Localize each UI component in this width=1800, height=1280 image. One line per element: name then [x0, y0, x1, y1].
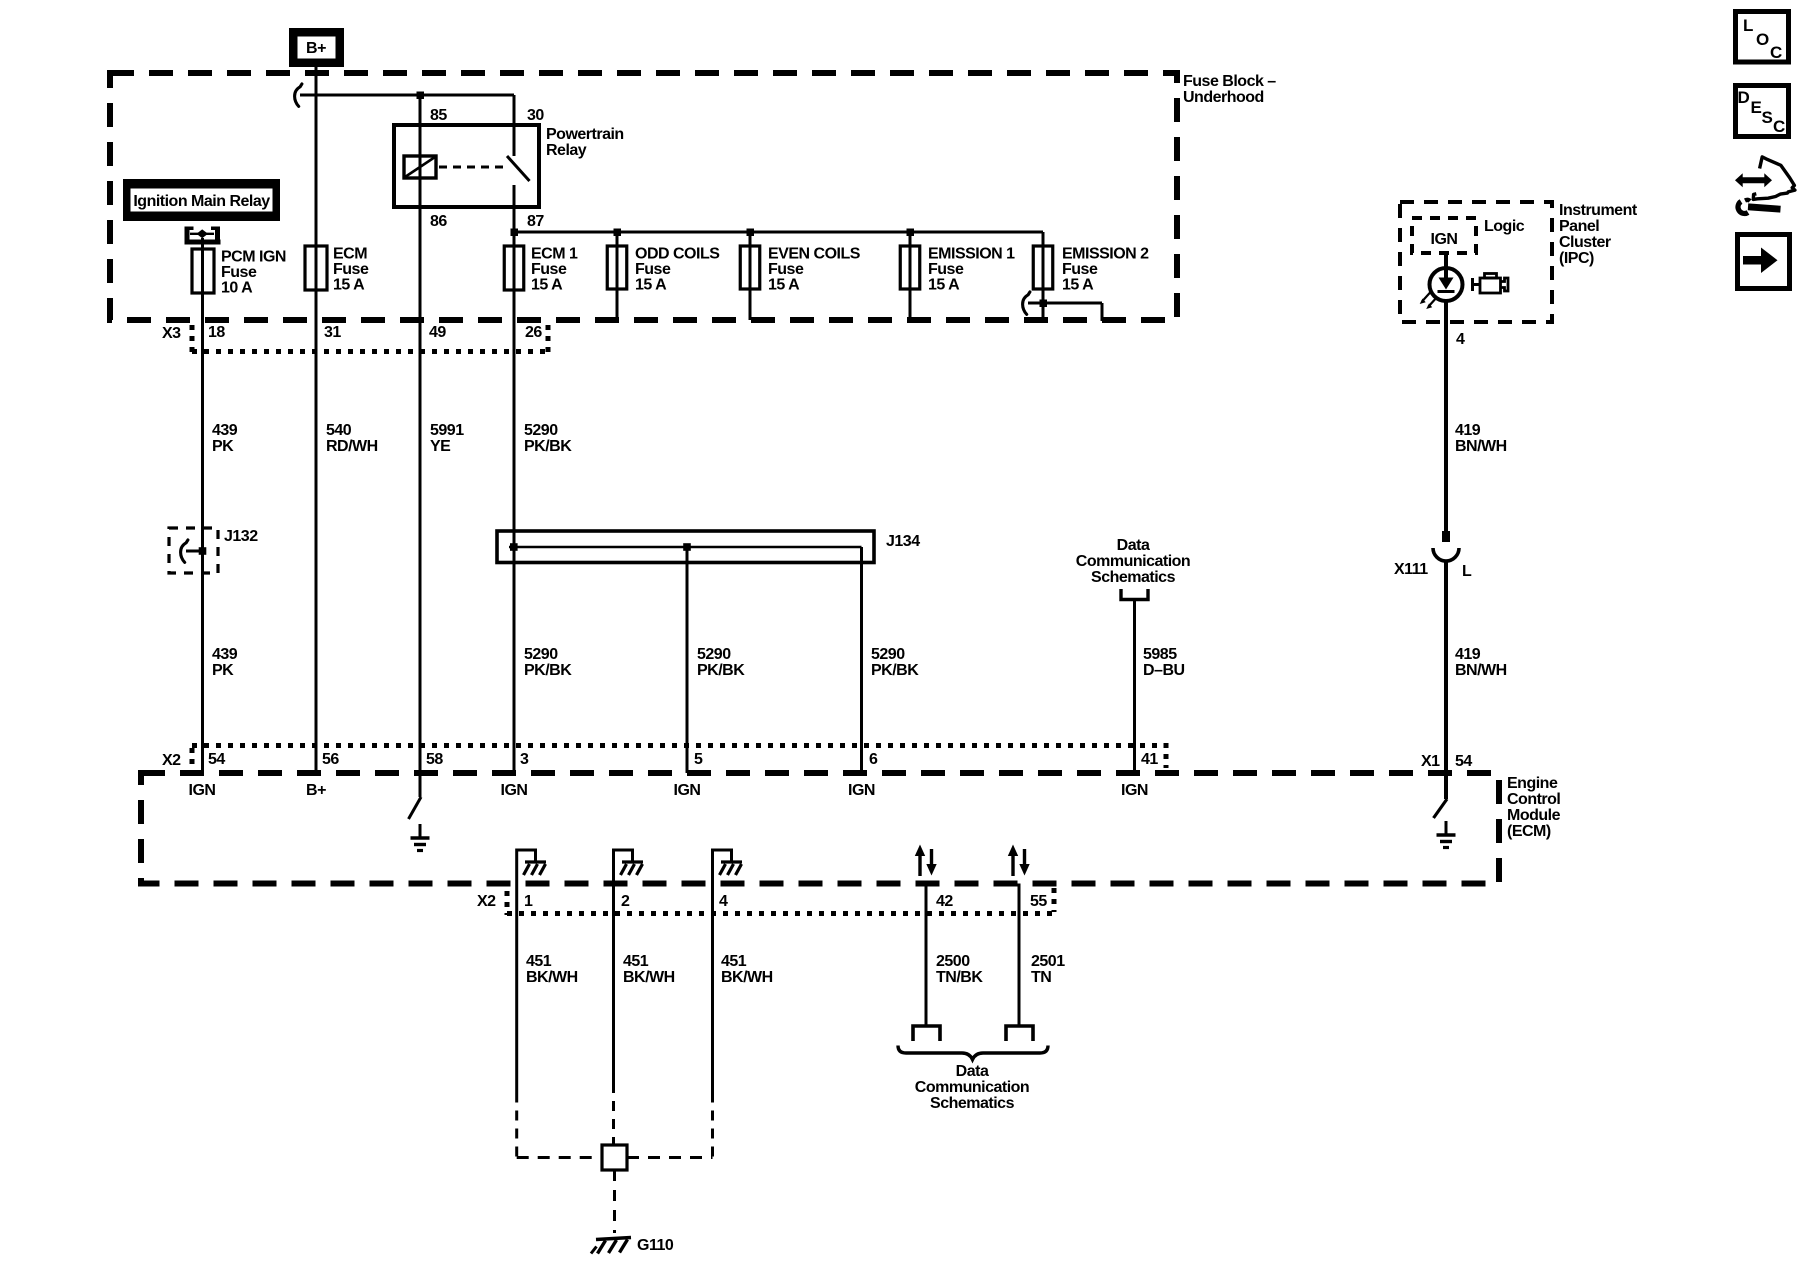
svg-text:540: 540 [326, 422, 352, 439]
svg-text:YE: YE [430, 438, 451, 455]
wire: 419 BN/WH lower [1444, 561, 1448, 775]
wire: EVEN COILS drop [749, 232, 752, 320]
svg-text:42: 42 [936, 893, 953, 910]
svg-text:Fuse: Fuse [333, 261, 369, 278]
svg-text:419: 419 [1455, 646, 1481, 663]
engine icon (check engine) [1473, 274, 1509, 294]
connector row X2 top [162, 743, 1166, 772]
svg-text:J132: J132 [224, 528, 258, 545]
svg-text:Schematics: Schematics [930, 1095, 1015, 1112]
svg-text:C: C [1770, 43, 1782, 62]
wire: relay coil drop 85-86 (5991 YE column) [419, 95, 422, 773]
wire: 451 BK/WH pin 4 [711, 884, 714, 1093]
wire: EMISSION 1 drop [909, 232, 912, 320]
svg-text:54: 54 [208, 751, 225, 768]
svg-text:B+: B+ [306, 40, 326, 57]
svg-text:5290: 5290 [871, 646, 905, 663]
wire: ground bus dashed horizontal right [627, 1156, 713, 1159]
svg-text:IGN: IGN [848, 782, 875, 799]
terminal cup pin 55 [1006, 1026, 1033, 1041]
junction node at EMISSION 1 tap [907, 229, 915, 237]
fuse: EMISSION 2 Fuse 15 A [1033, 246, 1149, 294]
svg-text:O: O [1756, 30, 1769, 49]
svg-text:EVEN COILS: EVEN COILS [768, 246, 861, 263]
svg-text:IGN: IGN [501, 782, 528, 799]
svg-text:1: 1 [524, 893, 533, 910]
svg-text:5985: 5985 [1143, 646, 1177, 663]
svg-text:58: 58 [426, 751, 443, 768]
svg-text:Relay: Relay [546, 142, 587, 159]
svg-text:Schematics: Schematics [1091, 569, 1176, 586]
svg-text:BN/WH: BN/WH [1455, 438, 1507, 455]
icon forward arrow box [1738, 235, 1790, 289]
fuse: EVEN COILS Fuse 15 A [740, 246, 860, 294]
off-page bracket data comm [1121, 589, 1148, 600]
wire: EMISSION 2 branch drop [1101, 303, 1104, 321]
svg-text:451: 451 [721, 953, 747, 970]
ECM internal chassis ground pin 1 [517, 850, 546, 884]
svg-text:X111: X111 [1394, 561, 1428, 578]
fuse: ECM 1 Fuse 15 A [504, 246, 578, 294]
clip symbol left of EMISSION 2 branch [1023, 292, 1030, 315]
junction node J134 mid [683, 543, 691, 551]
label 5985 D-BU [1143, 646, 1185, 679]
splice pack J134 [497, 531, 920, 563]
relay link dashed [439, 166, 505, 169]
battery terminal B+ [289, 28, 344, 67]
svg-text:2501: 2501 [1031, 953, 1065, 970]
label X111 L [1394, 561, 1472, 580]
junction node J134 left [510, 543, 518, 551]
wire label 2501 TN [1031, 953, 1065, 986]
label Data Communication Schematics upper [1076, 537, 1190, 586]
wire: EMISSION 2 branch horizontal [1028, 302, 1102, 305]
indicator lamp (LED) [1420, 268, 1463, 309]
svg-text:87: 87 [527, 213, 544, 230]
svg-text:2500: 2500 [936, 953, 970, 970]
junction node at ODD COILS tap [614, 229, 622, 237]
svg-text:(IPC): (IPC) [1559, 250, 1594, 267]
ECM internal chassis ground pin 2 [614, 850, 644, 884]
svg-text:54: 54 [1455, 753, 1472, 770]
svg-text:10 A: 10 A [221, 280, 253, 297]
label Instrument Panel Cluster (IPC) [1559, 202, 1638, 267]
svg-text:15 A: 15 A [531, 277, 563, 294]
terminal cup pin 42 [913, 1026, 940, 1041]
svg-text:5290: 5290 [697, 646, 731, 663]
svg-text:Fuse: Fuse [928, 261, 964, 278]
svg-text:EMISSION 1: EMISSION 1 [928, 246, 1015, 263]
svg-text:Cluster: Cluster [1559, 234, 1611, 251]
wire: 419 BN/WH upper [1444, 302, 1448, 537]
svg-text:BK/WH: BK/WH [623, 969, 675, 986]
label 5290 PK/BK pin5 [697, 646, 745, 679]
fuse: EMISSION 1 Fuse 15 A [900, 246, 1015, 294]
fuse: ODD COILS Fuse 15 A [607, 246, 720, 294]
junction node J132 [199, 547, 207, 555]
svg-text:TN: TN [1031, 969, 1051, 986]
wire label 451 BK/WH pin1 [526, 953, 578, 986]
svg-text:5: 5 [694, 751, 703, 768]
svg-text:5290: 5290 [524, 646, 558, 663]
svg-text:Fuse: Fuse [768, 261, 804, 278]
svg-text:Ignition Main Relay: Ignition Main Relay [133, 193, 270, 210]
connector row X3 [162, 325, 548, 355]
svg-text:BK/WH: BK/WH [721, 969, 773, 986]
svg-text:TN/BK: TN/BK [936, 969, 983, 986]
wire label 419 BN/WH lower [1455, 646, 1507, 679]
connector row X2 bottom [477, 888, 1054, 915]
relay: Powertrain Relay [394, 107, 624, 230]
fuse: PCM IGN Fuse 10 A [192, 249, 286, 297]
wire: J134 to pin 5 [686, 547, 689, 773]
svg-text:Underhood: Underhood [1183, 89, 1264, 106]
wire: ground bus dashed horizontal left [517, 1156, 602, 1159]
relay switch arm [507, 156, 530, 181]
junction node at relay coil feed [417, 92, 425, 100]
wire label 439 PK upper [212, 422, 238, 455]
svg-text:Fuse: Fuse [221, 264, 257, 281]
icon double arrow [1735, 173, 1772, 187]
svg-text:15 A: 15 A [928, 277, 960, 294]
svg-text:6: 6 [869, 751, 878, 768]
svg-text:4: 4 [1456, 331, 1465, 348]
wire: 2501 TN pin 55 [1018, 884, 1021, 1027]
svg-text:Control: Control [1507, 791, 1560, 808]
ECM internal chassis ground pin 4 [713, 850, 743, 884]
svg-text:15 A: 15 A [1062, 277, 1094, 294]
wire label 5991 YE [430, 422, 464, 455]
svg-text:15 A: 15 A [333, 277, 365, 294]
svg-text:Engine: Engine [1507, 775, 1558, 792]
svg-text:5290: 5290 [524, 422, 558, 439]
ECM internal switch at X1 54 [1434, 775, 1448, 818]
wire: relay feed 30 to 87 (5290 PK/BK column) [513, 95, 516, 156]
svg-text:J134: J134 [886, 533, 920, 550]
relay coil [404, 156, 436, 178]
svg-text:Module: Module [1507, 807, 1561, 824]
wire: dashed drop to G110 [613, 1170, 616, 1233]
svg-text:B+: B+ [306, 782, 326, 799]
svg-text:Powertrain: Powertrain [546, 126, 624, 143]
svg-text:PK: PK [212, 662, 234, 679]
brace data communication [898, 1046, 1048, 1060]
label Data Communication Schematics lower [915, 1063, 1029, 1112]
svg-text:PK: PK [212, 438, 234, 455]
svg-text:BN/WH: BN/WH [1455, 662, 1507, 679]
junction node at EVEN COILS tap [747, 229, 755, 237]
svg-text:Fuse: Fuse [1062, 261, 1098, 278]
svg-text:BK/WH: BK/WH [526, 969, 578, 986]
clip symbol inside J132 [181, 540, 188, 563]
label 5290 PK/BK pin3 [524, 646, 572, 679]
svg-text:IGN: IGN [189, 782, 216, 799]
label X1 54 [1421, 753, 1472, 770]
clip symbol at left end of feed line [295, 84, 302, 107]
ground splice block [602, 1145, 627, 1170]
junction node below EMISSION 2 fuse [1040, 300, 1048, 308]
wire: J134 to pin 6 [860, 547, 863, 773]
wire: 451 BK/WH pin 1 [515, 884, 518, 1093]
svg-text:56: 56 [322, 751, 339, 768]
svg-text:419: 419 [1455, 422, 1481, 439]
svg-text:26: 26 [525, 324, 542, 341]
wire: top feed horizontal [300, 94, 514, 97]
svg-text:PCM IGN: PCM IGN [221, 249, 286, 266]
svg-text:RD/WH: RD/WH [326, 438, 378, 455]
svg-text:L: L [1462, 563, 1472, 580]
svg-text:Fuse: Fuse [635, 261, 671, 278]
IGN logic box [1412, 218, 1476, 253]
wire label 451 BK/WH pin2 [623, 953, 675, 986]
svg-text:451: 451 [526, 953, 552, 970]
svg-text:S: S [1762, 108, 1773, 127]
svg-text:3: 3 [520, 751, 529, 768]
icon LOC box [1736, 12, 1789, 63]
svg-text:Communication: Communication [915, 1079, 1029, 1096]
svg-text:2: 2 [621, 893, 630, 910]
svg-text:Fuse: Fuse [531, 261, 567, 278]
svg-text:Data: Data [1117, 537, 1150, 554]
svg-text:IGN: IGN [1121, 782, 1148, 799]
svg-text:ODD COILS: ODD COILS [635, 246, 720, 263]
svg-text:439: 439 [212, 422, 238, 439]
svg-text:PK/BK: PK/BK [697, 662, 745, 679]
svg-text:Instrument: Instrument [1559, 202, 1638, 219]
svg-text:49: 49 [429, 324, 446, 341]
svg-text:Communication: Communication [1076, 553, 1190, 570]
icon car outline [1753, 157, 1795, 200]
svg-text:G110: G110 [637, 1237, 674, 1254]
label Fuse Block - Underhood [1183, 73, 1276, 106]
label box: Ignition Main Relay [123, 179, 280, 221]
svg-text:EMISSION 2: EMISSION 2 [1062, 246, 1149, 263]
svg-text:86: 86 [430, 213, 447, 230]
wire label 451 BK/WH pin4 [721, 953, 773, 986]
wire label 419 BN/WH upper [1455, 422, 1507, 455]
svg-text:ECM: ECM [333, 246, 367, 263]
svg-text:15 A: 15 A [768, 277, 800, 294]
label Engine Control Module (ECM) [1507, 775, 1561, 840]
ground symbol below X1 54 switch [1437, 821, 1456, 848]
svg-text:C: C [1773, 117, 1785, 136]
engine control module ECM box [141, 773, 1499, 884]
svg-text:4: 4 [719, 893, 728, 910]
wire: B+ feed vertical (540 RD/WH column) [315, 67, 318, 773]
svg-text:X2: X2 [162, 752, 181, 769]
wire: 451 BK/WH pin 2 [612, 884, 615, 1084]
wire label 5290 PK/BK upper [524, 422, 572, 455]
terminal bracket symbol (ignition main relay output) [185, 227, 221, 245]
svg-text:31: 31 [324, 324, 341, 341]
svg-text:(ECM): (ECM) [1507, 823, 1551, 840]
wire label 540 RD/WH [326, 422, 378, 455]
fuse block box: Fuse Block - Underhood [110, 73, 1177, 320]
wire: J132 stub [186, 550, 203, 553]
svg-text:Panel: Panel [1559, 218, 1599, 235]
svg-text:D–BU: D–BU [1143, 662, 1185, 679]
svg-text:5991: 5991 [430, 422, 464, 439]
ECM internal switch at pin 58 [409, 773, 422, 819]
svg-text:L: L [1743, 16, 1753, 35]
svg-text:451: 451 [623, 953, 649, 970]
wire: 5985 D-BU [1133, 600, 1136, 774]
wire: 2500 TN/BK pin 42 [925, 884, 928, 1027]
svg-text:E: E [1751, 98, 1762, 117]
wire: IPC lamp feed upper [1444, 253, 1448, 278]
fuse: ECM Fuse 15 A [305, 246, 369, 294]
wire: PCM IGN column (439 PK) [201, 238, 204, 773]
svg-text:55: 55 [1030, 893, 1047, 910]
inline connector X111 terminal [1433, 531, 1459, 561]
wire: EMISSION 2 drop [1042, 232, 1045, 321]
svg-text:PK/BK: PK/BK [524, 662, 572, 679]
wire: ODD COILS drop [616, 232, 619, 320]
svg-text:41: 41 [1141, 751, 1158, 768]
serial data arrows at pin 55 [1008, 845, 1030, 877]
svg-text:PK/BK: PK/BK [871, 662, 919, 679]
icon wrench [1738, 200, 1781, 214]
svg-text:D: D [1738, 88, 1750, 107]
svg-text:18: 18 [208, 324, 225, 341]
svg-text:IGN: IGN [1431, 231, 1458, 248]
svg-text:IGN: IGN [674, 782, 701, 799]
junction node at relay output 87 [511, 229, 519, 237]
svg-text:ECM 1: ECM 1 [531, 246, 578, 263]
svg-text:X3: X3 [162, 325, 181, 342]
splice J132 [169, 528, 258, 573]
ground symbol below pin 58 switch [411, 824, 430, 851]
wire label 2500 TN/BK [936, 953, 983, 986]
svg-text:X2: X2 [477, 893, 496, 910]
svg-text:X1: X1 [1421, 753, 1440, 770]
wire: fuse feed bus from 87 [514, 231, 1043, 234]
serial data arrows at pin 42 [915, 845, 937, 877]
svg-text:PK/BK: PK/BK [524, 438, 572, 455]
label 439 PK lower [212, 646, 238, 679]
svg-text:85: 85 [430, 107, 447, 124]
ground G110 [591, 1237, 674, 1254]
instrument panel cluster IPC box [1400, 202, 1552, 322]
svg-text:Logic: Logic [1484, 218, 1525, 235]
label 5290 PK/BK pin6 [871, 646, 919, 679]
svg-text:Fuse Block –: Fuse Block – [1183, 73, 1276, 90]
svg-text:Data: Data [956, 1063, 989, 1080]
svg-text:30: 30 [527, 107, 544, 124]
svg-text:439: 439 [212, 646, 238, 663]
icon DESC box [1736, 86, 1789, 137]
svg-text:15 A: 15 A [635, 277, 667, 294]
